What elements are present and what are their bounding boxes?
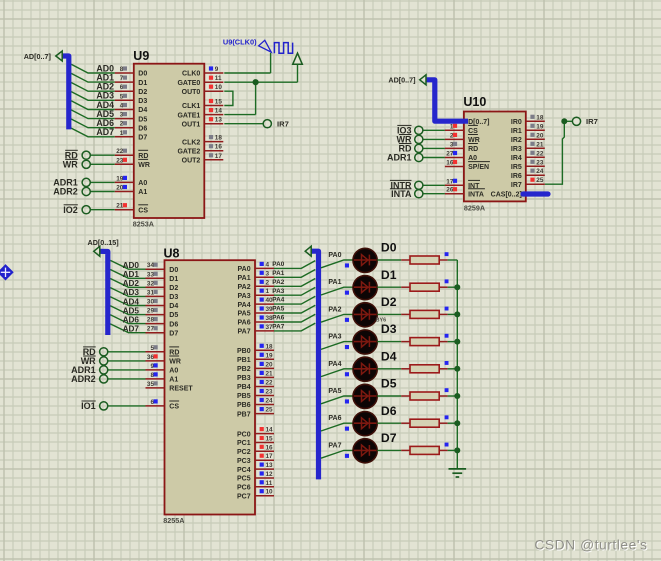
svg-text:11: 11 bbox=[266, 480, 273, 487]
svg-text:IR6: IR6 bbox=[511, 173, 522, 180]
svg-text:AD0: AD0 bbox=[123, 261, 140, 270]
svg-text:PC5: PC5 bbox=[237, 476, 251, 483]
svg-text:PA5: PA5 bbox=[237, 311, 250, 318]
svg-text:AD1: AD1 bbox=[123, 270, 140, 279]
svg-text:18: 18 bbox=[266, 343, 274, 350]
svg-text:AD7: AD7 bbox=[123, 325, 140, 334]
svg-text:CLK1: CLK1 bbox=[182, 103, 200, 110]
svg-text:40: 40 bbox=[266, 297, 274, 304]
svg-text:AD3: AD3 bbox=[123, 288, 140, 297]
svg-text:27: 27 bbox=[147, 326, 155, 333]
svg-text:21: 21 bbox=[116, 203, 124, 210]
svg-text:25: 25 bbox=[536, 177, 544, 184]
svg-text:A1: A1 bbox=[169, 377, 178, 384]
svg-text:D5: D5 bbox=[381, 377, 397, 391]
svg-text:14: 14 bbox=[266, 427, 274, 434]
svg-text:PA3: PA3 bbox=[237, 293, 250, 300]
svg-text:D5: D5 bbox=[169, 312, 178, 319]
svg-text:ADR2: ADR2 bbox=[71, 374, 96, 384]
svg-text:INTA: INTA bbox=[468, 191, 484, 198]
svg-text:CLK2: CLK2 bbox=[182, 139, 200, 146]
svg-text:8253A: 8253A bbox=[133, 219, 154, 228]
svg-text:17: 17 bbox=[215, 153, 223, 160]
svg-text:IR2: IR2 bbox=[511, 137, 522, 144]
svg-text:PA6: PA6 bbox=[237, 320, 250, 327]
svg-text:16: 16 bbox=[266, 444, 274, 451]
svg-text:WR: WR bbox=[169, 359, 181, 366]
svg-text:15: 15 bbox=[266, 436, 274, 443]
svg-text:SP/EN: SP/EN bbox=[468, 164, 489, 171]
svg-text:D2: D2 bbox=[169, 285, 178, 292]
svg-text:PA0: PA0 bbox=[272, 261, 284, 268]
svg-text:D0: D0 bbox=[169, 267, 178, 274]
svg-text:U10: U10 bbox=[463, 95, 486, 109]
svg-text:OUT0: OUT0 bbox=[182, 89, 201, 96]
svg-text:PC2: PC2 bbox=[237, 449, 251, 456]
svg-text:16: 16 bbox=[446, 160, 454, 167]
svg-text:D6: D6 bbox=[381, 404, 397, 418]
svg-text:PA1: PA1 bbox=[237, 275, 250, 282]
svg-text:PA5: PA5 bbox=[272, 306, 284, 313]
svg-text:23: 23 bbox=[266, 389, 274, 396]
svg-text:D2: D2 bbox=[138, 89, 147, 96]
svg-text:10: 10 bbox=[266, 489, 274, 496]
svg-text:ADR1: ADR1 bbox=[387, 153, 412, 163]
svg-text:U8: U8 bbox=[164, 246, 180, 260]
svg-text:PB6: PB6 bbox=[237, 402, 251, 409]
svg-text:D6: D6 bbox=[138, 125, 147, 132]
svg-text:AD2: AD2 bbox=[123, 279, 140, 288]
svg-text:8255A: 8255A bbox=[163, 516, 184, 525]
svg-text:D2: D2 bbox=[381, 295, 397, 309]
svg-text:RD: RD bbox=[468, 146, 478, 153]
svg-text:IR3: IR3 bbox=[511, 146, 522, 153]
svg-text:D4: D4 bbox=[381, 349, 397, 363]
svg-text:D1: D1 bbox=[169, 276, 178, 283]
svg-text:ADR2: ADR2 bbox=[53, 187, 78, 197]
svg-text:IR4: IR4 bbox=[511, 155, 522, 162]
svg-text:PA1: PA1 bbox=[272, 270, 284, 277]
svg-text:IO1: IO1 bbox=[81, 401, 96, 411]
svg-text:10: 10 bbox=[215, 84, 223, 91]
svg-text:29: 29 bbox=[147, 308, 155, 315]
svg-text:AD4: AD4 bbox=[123, 297, 140, 306]
svg-text:25: 25 bbox=[266, 407, 274, 414]
svg-text:PA6: PA6 bbox=[328, 415, 341, 422]
svg-text:AD[0..15]: AD[0..15] bbox=[88, 238, 119, 247]
svg-text:21: 21 bbox=[266, 370, 274, 377]
svg-text:GATE0: GATE0 bbox=[177, 80, 200, 87]
svg-text:31: 31 bbox=[147, 289, 155, 296]
svg-text:18: 18 bbox=[215, 135, 223, 142]
svg-text:PC4: PC4 bbox=[237, 467, 251, 474]
svg-text:CS: CS bbox=[169, 404, 179, 411]
svg-text:PA3: PA3 bbox=[328, 334, 341, 341]
svg-text:35: 35 bbox=[147, 381, 155, 388]
svg-text:22: 22 bbox=[536, 150, 544, 157]
svg-text:PC1: PC1 bbox=[237, 440, 251, 447]
svg-text:IR7: IR7 bbox=[586, 117, 598, 126]
svg-text:PA7: PA7 bbox=[237, 329, 250, 336]
svg-text:D4: D4 bbox=[138, 107, 147, 114]
svg-text:PA4: PA4 bbox=[328, 361, 341, 368]
svg-text:PB3: PB3 bbox=[237, 375, 251, 382]
svg-text:IR0: IR0 bbox=[511, 119, 522, 126]
svg-text:19: 19 bbox=[266, 352, 274, 359]
svg-text:PA0: PA0 bbox=[328, 252, 341, 259]
svg-text:AD[0..7]: AD[0..7] bbox=[388, 75, 415, 84]
svg-text:19: 19 bbox=[536, 123, 544, 130]
svg-text:D3: D3 bbox=[138, 98, 147, 105]
svg-text:17: 17 bbox=[266, 453, 274, 460]
svg-text:GATE1: GATE1 bbox=[177, 112, 200, 119]
svg-text:AD[0..7]: AD[0..7] bbox=[24, 52, 51, 61]
svg-text:AD7: AD7 bbox=[96, 127, 114, 137]
svg-text:BY6: BY6 bbox=[376, 317, 387, 323]
svg-text:D6: D6 bbox=[169, 321, 178, 328]
svg-text:IR7: IR7 bbox=[511, 182, 522, 189]
svg-text:D7: D7 bbox=[381, 431, 397, 445]
svg-text:33: 33 bbox=[147, 271, 155, 278]
svg-text:30: 30 bbox=[147, 299, 155, 306]
svg-text:2: 2 bbox=[266, 279, 270, 286]
svg-text:11: 11 bbox=[215, 75, 222, 82]
svg-text:PA3: PA3 bbox=[272, 288, 284, 295]
svg-text:A0: A0 bbox=[169, 368, 178, 375]
svg-text:INTA: INTA bbox=[391, 189, 412, 199]
svg-text:23: 23 bbox=[116, 157, 124, 164]
svg-text:17: 17 bbox=[446, 178, 454, 185]
svg-text:CS: CS bbox=[468, 128, 478, 135]
svg-text:37: 37 bbox=[266, 324, 274, 331]
svg-text:PC3: PC3 bbox=[237, 458, 251, 465]
svg-text:16: 16 bbox=[215, 144, 223, 151]
svg-text:38: 38 bbox=[266, 315, 274, 322]
svg-text:RD: RD bbox=[169, 350, 179, 357]
svg-text:D1: D1 bbox=[381, 268, 397, 282]
svg-text:WR: WR bbox=[138, 162, 150, 169]
svg-text:PB4: PB4 bbox=[237, 384, 251, 391]
svg-text:19: 19 bbox=[116, 175, 124, 182]
svg-text:U9: U9 bbox=[133, 49, 149, 63]
svg-text:PA2: PA2 bbox=[328, 306, 341, 313]
svg-text:15: 15 bbox=[215, 99, 223, 106]
svg-text:CS: CS bbox=[138, 207, 148, 214]
svg-text:20: 20 bbox=[536, 132, 544, 139]
svg-text:24: 24 bbox=[536, 168, 544, 175]
svg-text:IR5: IR5 bbox=[511, 164, 522, 171]
svg-text:D4: D4 bbox=[169, 303, 178, 310]
svg-text:D3: D3 bbox=[169, 294, 178, 301]
svg-text:18: 18 bbox=[536, 114, 544, 121]
svg-text:4: 4 bbox=[266, 261, 270, 268]
svg-text:20: 20 bbox=[266, 361, 274, 368]
svg-text:AD5: AD5 bbox=[123, 306, 140, 315]
svg-text:22: 22 bbox=[266, 380, 274, 387]
svg-text:PC6: PC6 bbox=[237, 485, 251, 492]
svg-text:PA7: PA7 bbox=[328, 442, 341, 449]
svg-text:CSDN @turtlee's: CSDN @turtlee's bbox=[534, 538, 647, 553]
svg-text:OUT2: OUT2 bbox=[182, 158, 201, 165]
svg-text:26: 26 bbox=[446, 187, 454, 194]
svg-text:1: 1 bbox=[266, 288, 270, 295]
svg-text:13: 13 bbox=[266, 462, 274, 469]
svg-text:3: 3 bbox=[266, 270, 270, 277]
svg-text:PB5: PB5 bbox=[237, 393, 251, 400]
svg-text:39: 39 bbox=[266, 306, 274, 313]
svg-text:36: 36 bbox=[147, 354, 155, 361]
svg-text:28: 28 bbox=[147, 317, 155, 324]
svg-text:34: 34 bbox=[147, 262, 155, 269]
svg-text:24: 24 bbox=[266, 398, 274, 405]
svg-text:PA5: PA5 bbox=[328, 388, 341, 395]
svg-text:8259A: 8259A bbox=[464, 204, 485, 213]
svg-text:PA6: PA6 bbox=[272, 315, 284, 322]
svg-text:A1: A1 bbox=[138, 189, 147, 196]
svg-text:PB7: PB7 bbox=[237, 411, 251, 418]
svg-text:D7: D7 bbox=[138, 135, 147, 142]
svg-text:IR1: IR1 bbox=[511, 128, 522, 135]
svg-text:WR: WR bbox=[63, 160, 78, 170]
svg-text:U9(CLK0): U9(CLK0) bbox=[223, 38, 257, 47]
svg-text:21: 21 bbox=[536, 141, 544, 148]
svg-text:GATE2: GATE2 bbox=[177, 148, 200, 155]
svg-text:A0: A0 bbox=[138, 180, 147, 187]
svg-text:32: 32 bbox=[147, 280, 155, 287]
svg-text:13: 13 bbox=[215, 117, 223, 124]
svg-text:PA0: PA0 bbox=[237, 266, 250, 273]
svg-text:PB1: PB1 bbox=[237, 357, 251, 364]
svg-text:IR7: IR7 bbox=[277, 119, 289, 128]
svg-text:D[0..7]: D[0..7] bbox=[468, 119, 489, 126]
svg-text:PC0: PC0 bbox=[237, 431, 251, 438]
svg-text:14: 14 bbox=[215, 108, 223, 115]
svg-text:PA4: PA4 bbox=[237, 302, 250, 309]
svg-text:12: 12 bbox=[266, 471, 274, 478]
svg-text:PA4: PA4 bbox=[272, 297, 284, 304]
svg-text:AD6: AD6 bbox=[123, 315, 140, 324]
svg-text:PA2: PA2 bbox=[237, 284, 250, 291]
svg-text:D0: D0 bbox=[381, 241, 397, 255]
svg-text:RD: RD bbox=[138, 153, 148, 160]
svg-text:D0: D0 bbox=[138, 71, 147, 78]
svg-text:D3: D3 bbox=[381, 322, 397, 336]
svg-text:9: 9 bbox=[215, 66, 219, 73]
svg-text:PA2: PA2 bbox=[272, 279, 284, 286]
svg-text:D7: D7 bbox=[169, 330, 178, 337]
svg-text:IO2: IO2 bbox=[63, 205, 78, 215]
svg-text:D5: D5 bbox=[138, 116, 147, 123]
svg-text:OUT1: OUT1 bbox=[182, 121, 201, 128]
svg-text:RESET: RESET bbox=[169, 386, 193, 393]
svg-text:23: 23 bbox=[536, 159, 544, 166]
svg-text:D1: D1 bbox=[138, 80, 147, 87]
svg-text:CAS[0..2]: CAS[0..2] bbox=[491, 192, 522, 199]
svg-text:CLK0: CLK0 bbox=[182, 71, 200, 78]
svg-text:PA7: PA7 bbox=[272, 324, 284, 331]
svg-text:PB2: PB2 bbox=[237, 366, 251, 373]
svg-text:PB0: PB0 bbox=[237, 348, 251, 355]
svg-text:22: 22 bbox=[116, 148, 124, 155]
svg-text:20: 20 bbox=[116, 185, 124, 192]
svg-text:27: 27 bbox=[446, 151, 454, 158]
svg-text:PC7: PC7 bbox=[237, 493, 251, 500]
svg-text:PA1: PA1 bbox=[328, 279, 341, 286]
